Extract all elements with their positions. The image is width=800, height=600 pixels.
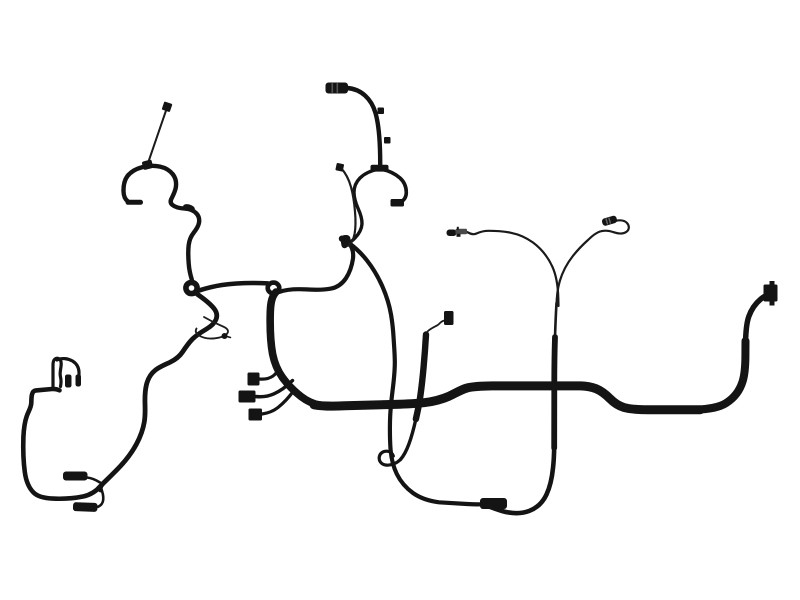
connector: right end fitting <box>764 281 778 306</box>
wire: left branch descending S from junction <box>347 169 379 244</box>
cable tie: head <box>162 101 173 112</box>
wire: crown riser and top arc <box>53 358 61 389</box>
wire: thin tail below sleeve <box>401 419 416 460</box>
wire: horizontal cable from knot to wrap <box>199 283 268 291</box>
connector: crown plug right <box>76 375 82 387</box>
wire: big cable from knot sweeping southwest <box>100 294 217 490</box>
wire: crown right arc <box>57 359 79 384</box>
wire: thin loop near knot <box>196 317 228 339</box>
wire: upper right cable to end connector <box>746 295 767 346</box>
wire: descending strand to lower connector <box>350 244 482 505</box>
wire: long vertical cable <box>555 303 557 337</box>
connector: tiny stub upper left of junction <box>335 163 344 172</box>
connector: V-branch right terminal <box>601 215 617 226</box>
wire: hook cable upper left <box>123 166 199 280</box>
wire: lower-left big loop <box>23 389 100 499</box>
wire: long vertical bottom curve <box>485 446 555 513</box>
wire: stub to connector 1 <box>87 478 100 483</box>
connector: tiny ball terminal <box>222 333 228 339</box>
wire: tail from junction to lower connector <box>98 487 103 507</box>
connector: small block on arc <box>391 199 405 207</box>
wire: tiny ball tip <box>227 337 231 338</box>
clip stub upper <box>378 108 385 115</box>
node: wrap loop over trunk top <box>268 283 280 294</box>
wire: V-branch left lead <box>457 231 559 306</box>
connector: branch plug C <box>249 409 263 421</box>
connector: small plug above sleeve <box>444 311 454 325</box>
wire: right trunk riser <box>696 341 746 410</box>
cable tie: strap <box>148 110 167 165</box>
node: knot ring <box>186 282 197 293</box>
connector: crown plug left <box>65 375 72 388</box>
wire: central thick vertical harness trunk <box>270 292 320 405</box>
wire: main horizontal trunk cable <box>314 386 700 410</box>
wire: cable from top connector down to junction <box>347 88 380 168</box>
wire: cable continuing right from wrap, bending down <box>279 245 353 293</box>
clip: double-knob retainer at cable bundle <box>339 235 351 248</box>
connector: ribbed fitting top center <box>326 83 349 94</box>
clip stub lower <box>384 137 391 144</box>
wire: curl end of sleeved cable <box>379 451 400 465</box>
wire: hook open-end foot <box>128 200 141 205</box>
wire: thin parallel strand from stub <box>341 168 356 246</box>
wire: V-branch right lead with curl <box>557 220 629 306</box>
wire: sleeved cable descending <box>416 335 426 420</box>
wire: branch arm B <box>256 381 293 397</box>
cable tie: clamp mount <box>142 159 154 170</box>
connector: branch plug B <box>239 391 256 403</box>
connector: branch plug A <box>248 373 260 386</box>
connector: V-branch left terminal <box>447 227 468 237</box>
node: bump sleeve on hook cable <box>182 203 195 212</box>
wire: arc right to small connector <box>381 169 406 204</box>
node: junction wrap bar <box>371 165 389 172</box>
connector: lower-left plug 2 <box>73 502 98 512</box>
wire: branch arm A <box>260 369 279 380</box>
connector: lower-left plug 1 <box>63 472 88 481</box>
wire: branch arm C <box>262 391 294 414</box>
wire: sleeve on long vertical cable <box>551 337 558 448</box>
wire: thin lead from sleeve top to plug <box>428 320 448 331</box>
connector: bottom center plug <box>480 498 507 509</box>
